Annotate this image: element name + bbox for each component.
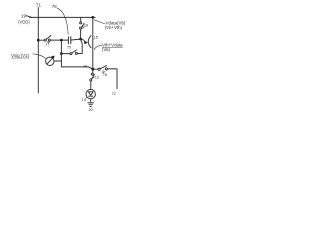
svg-text:(VDD): (VDD) [18, 20, 30, 25]
transistor 15 gate wire and arrowhead [81, 39, 84, 40]
switch 17 [44, 39, 46, 41]
wire node A down [60, 40, 62, 67]
wire from switch 75 up to node B [78, 40, 83, 54]
svg-text:Vsig (V1): Vsig (V1) [11, 53, 30, 58]
wire data line 71 vertical [37, 8, 39, 94]
switch 76 [98, 68, 100, 70]
svg-text:16: 16 [83, 64, 87, 69]
switch 18 from VDD rail [80, 17, 82, 21]
transistor 15 channel from VDD [91, 16, 94, 19]
wire leader dash from 19 [26, 16, 31, 18]
svg-text:12: 12 [95, 74, 99, 79]
transistor 15 gate arc [88, 36, 91, 48]
wire switch 76 to line 72 [108, 69, 117, 89]
wire from node (61,54) to switch 75 [61, 53, 69, 55]
svg-text:18: 18 [84, 23, 88, 28]
svg-text:19: 19 [21, 13, 27, 18]
wire bottom to drive node 16 [61, 67, 92, 69]
switch 12 below node 16 [92, 69, 94, 73]
OLED 14 [86, 89, 95, 98]
svg-text:76: 76 [103, 72, 107, 77]
leader from Vsig to current source [35, 54, 46, 58]
svg-text:75: 75 [67, 46, 71, 50]
svg-text:(Vb+Vth): (Vb+Vth) [105, 25, 123, 30]
node A junction on data line [37, 39, 40, 42]
wire VDD top rail [30, 16, 96, 18]
svg-text:78: 78 [52, 4, 57, 9]
wire leader to Vdata text [94, 20, 105, 24]
svg-text:17: 17 [45, 42, 49, 46]
svg-text:14: 14 [82, 97, 87, 102]
svg-text:72: 72 [112, 91, 116, 96]
wire from switch 17 to capacitor 78 [51, 39, 68, 41]
wire node 16 to switch 76 [93, 68, 98, 70]
svg-text:15: 15 [94, 34, 98, 39]
current source circle 13 [46, 57, 54, 65]
svg-text:20: 20 [89, 107, 94, 112]
ground 20 [88, 102, 94, 104]
node junction at (61,40) [60, 39, 63, 42]
wire current source to vertical [54, 60, 61, 62]
current source arrow [47, 58, 53, 64]
wire leader from Vth+Vdata [94, 45, 102, 49]
svg-text:(Va): (Va) [102, 47, 111, 52]
capacitor 78 [67, 37, 69, 44]
switch 75 [70, 53, 72, 55]
node B junction (gate node) [79, 38, 82, 41]
node junction 16 [91, 68, 94, 71]
svg-text:71: 71 [36, 2, 42, 7]
node junction at (61,54) [60, 52, 63, 55]
wire from capacitor to gate node B [71, 38, 80, 41]
wire switch 12 to OLED 14 [90, 81, 92, 89]
wire from data line to switch 17 [38, 39, 44, 41]
wire OLED to ground [90, 99, 92, 103]
wire switch 18 to node B [80, 29, 82, 38]
wire leader from 78 to capacitor [57, 8, 68, 34]
